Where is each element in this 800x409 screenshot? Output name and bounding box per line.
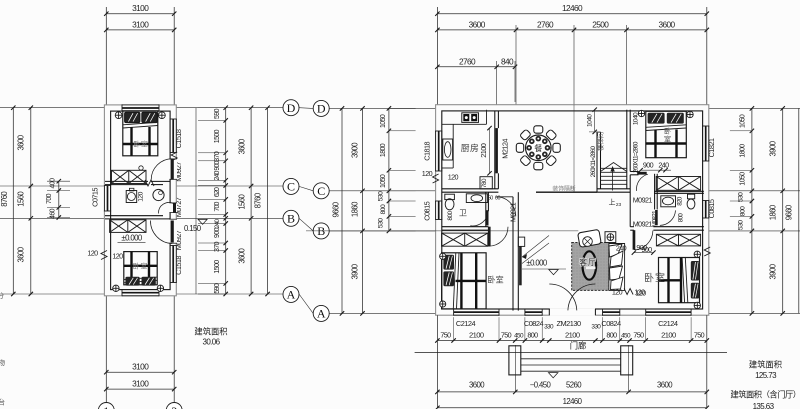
svg-text:900: 900 <box>214 160 221 170</box>
stairwell walls <box>596 132 598 192</box>
svg-text:餐: 餐 <box>534 144 542 153</box>
svg-text:C: C <box>287 180 295 194</box>
svg-text:建筑面积: 建筑面积 <box>749 360 782 370</box>
hall: tv cabinet and level <box>518 237 524 246</box>
left plan: 0.150 level mark <box>198 219 207 224</box>
svg-text:125.73: 125.73 <box>755 371 777 380</box>
svg-text:1860: 1860 <box>768 204 777 220</box>
svg-text:3600: 3600 <box>17 134 26 150</box>
svg-text:C0824: C0824 <box>524 319 544 328</box>
svg-text:260X11=2860: 260X11=2860 <box>590 145 597 177</box>
svg-text:120: 120 <box>448 173 459 182</box>
svg-text:C1518: C1518 <box>174 256 183 275</box>
svg-text:2100: 2100 <box>469 331 484 340</box>
svg-text:460: 460 <box>50 208 57 219</box>
svg-text:50: 50 <box>488 196 494 202</box>
left plan: 400/700/460 sub dims <box>58 181 60 217</box>
svg-text:装饰隔断: 装饰隔断 <box>552 185 575 193</box>
left bathroom fixtures <box>445 194 455 199</box>
svg-text:3900: 3900 <box>350 263 359 279</box>
svg-text:590: 590 <box>214 283 221 294</box>
svg-text:卫: 卫 <box>459 209 467 218</box>
svg-text:1050: 1050 <box>740 114 747 128</box>
svg-text:2100: 2100 <box>565 331 580 340</box>
dining south wall <box>442 188 499 190</box>
svg-text:800: 800 <box>677 213 684 223</box>
svg-text:ZM2130: ZM2130 <box>556 319 581 328</box>
svg-text:0.150: 0.150 <box>184 224 202 233</box>
svg-text:240: 240 <box>214 170 221 180</box>
dining table <box>553 143 560 152</box>
svg-text:A: A <box>287 288 296 302</box>
svg-text:5260: 5260 <box>566 380 582 389</box>
svg-text:C2124: C2124 <box>658 319 678 328</box>
svg-text:750: 750 <box>694 331 705 340</box>
kitchen sink <box>443 139 453 160</box>
svg-text:2100: 2100 <box>661 331 676 340</box>
svg-text:750: 750 <box>440 331 451 340</box>
bottom bedroom bed <box>124 252 157 285</box>
top right wardrobe <box>656 177 700 191</box>
svg-text:室: 室 <box>664 135 671 144</box>
svg-text:3600: 3600 <box>237 138 246 154</box>
svg-text:卧室: 卧室 <box>133 140 149 149</box>
right plan: bottom dims <box>437 340 706 342</box>
right bathroom walls <box>654 174 656 210</box>
left bathroom east wall <box>485 192 487 227</box>
svg-text:M0821: M0821 <box>652 210 659 227</box>
svg-text:400: 400 <box>50 178 57 189</box>
top right bedroom door <box>637 174 648 191</box>
svg-text:900: 900 <box>214 227 221 238</box>
svg-text:D: D <box>287 101 296 115</box>
bottom right bedroom bed <box>659 258 700 303</box>
B row wall left segment <box>442 226 489 228</box>
svg-text:800: 800 <box>527 331 538 340</box>
svg-text:2100: 2100 <box>479 143 488 158</box>
svg-text:M0921: M0921 <box>509 202 518 222</box>
left plan: top extension lines and 3100 dims <box>105 7 107 105</box>
right plan axis bubbles and lines <box>329 107 435 109</box>
door M0727 bathroom <box>173 203 176 213</box>
wall break symbols <box>101 251 107 260</box>
svg-text:800: 800 <box>447 210 454 220</box>
svg-text:120: 120 <box>634 288 645 297</box>
svg-text:M0921: M0921 <box>633 219 653 228</box>
svg-text:750: 750 <box>633 331 644 340</box>
left plan: right-side dim lines <box>195 108 197 294</box>
svg-text:3600: 3600 <box>658 19 675 29</box>
svg-text:C0815: C0815 <box>707 199 716 218</box>
svg-text:3100: 3100 <box>132 3 149 13</box>
svg-text:530: 530 <box>378 191 385 201</box>
svg-text:700: 700 <box>46 193 53 204</box>
svg-text:±0.000: ±0.000 <box>121 234 142 243</box>
exterior windows <box>435 131 437 171</box>
svg-text:450: 450 <box>514 333 524 340</box>
svg-text:1500: 1500 <box>214 129 221 143</box>
right bathroom door <box>655 210 658 225</box>
svg-text:23: 23 <box>616 202 622 208</box>
svg-text:3100: 3100 <box>132 379 149 389</box>
svg-text:1050: 1050 <box>380 174 387 188</box>
svg-text:上: 上 <box>609 198 616 207</box>
svg-text:门廊: 门廊 <box>570 341 587 351</box>
left plan: axis lines to bubbles D C B A <box>177 107 284 109</box>
porch steps and columns <box>521 358 621 360</box>
svg-text:1800: 1800 <box>380 143 387 157</box>
lamps bottom <box>113 285 119 291</box>
svg-text:30.06: 30.06 <box>202 338 220 347</box>
svg-text:台: 台 <box>0 398 5 407</box>
entry opening jambs <box>548 309 550 315</box>
svg-text:60: 60 <box>495 196 501 202</box>
svg-text:900: 900 <box>643 161 654 170</box>
svg-text:780: 780 <box>481 178 488 188</box>
svg-text:C0715: C0715 <box>91 188 100 207</box>
door M0927 bottom bedroom <box>171 221 174 243</box>
svg-text:750: 750 <box>501 331 512 340</box>
svg-text:240: 240 <box>214 219 221 229</box>
svg-text:厨房: 厨房 <box>461 142 480 153</box>
svg-text:800: 800 <box>740 206 747 216</box>
svg-text:8760: 8760 <box>0 191 9 207</box>
svg-text:530: 530 <box>737 220 744 230</box>
svg-text:M0921: M0921 <box>633 195 653 204</box>
right building: exterior walls <box>436 105 709 316</box>
svg-text:3600: 3600 <box>469 380 485 389</box>
svg-text:建筑面积: 建筑面积 <box>194 327 227 337</box>
svg-text:C: C <box>317 184 325 198</box>
svg-text:建筑面积（含门厅）: 建筑面积（含门厅） <box>730 390 800 400</box>
B row wall right segment <box>630 226 634 228</box>
top right bedroom bed <box>646 111 687 157</box>
svg-text:2760: 2760 <box>537 19 554 29</box>
svg-text:8760: 8760 <box>254 192 263 208</box>
bottom left bedroom wardrobe <box>442 233 488 246</box>
svg-text:370: 370 <box>214 151 221 162</box>
door M0927 top bedroom <box>171 159 174 180</box>
left building: windows <box>122 104 159 106</box>
svg-text:240: 240 <box>616 243 627 252</box>
entry double door arcs ZM2130 <box>549 284 577 310</box>
porch canopy line <box>415 352 727 354</box>
bathroom: washing machine, 120, basin <box>126 191 137 203</box>
svg-text:卧室: 卧室 <box>644 272 666 285</box>
svg-text:C2124: C2124 <box>456 319 476 328</box>
svg-text:260X11=2860: 260X11=2860 <box>633 141 640 173</box>
svg-text:2500: 2500 <box>592 19 609 29</box>
bottom right bedroom wardrobe <box>656 234 700 246</box>
svg-text:3600: 3600 <box>17 246 26 262</box>
bottom left bedroom bed <box>442 253 487 309</box>
entry opening white-out <box>550 308 595 316</box>
svg-text:800: 800 <box>606 331 617 340</box>
svg-text:3100: 3100 <box>132 19 149 29</box>
svg-text:物: 物 <box>0 358 5 367</box>
svg-text:1860: 1860 <box>350 201 359 217</box>
left building: top bedroom bed <box>123 111 158 156</box>
door opening white-outs on right wall <box>169 159 177 179</box>
top bedroom wardrobe <box>112 170 147 183</box>
svg-text:820: 820 <box>676 196 683 206</box>
top bedroom door wall <box>630 171 638 173</box>
svg-text:450: 450 <box>621 333 631 340</box>
svg-text:120: 120 <box>612 288 623 297</box>
svg-text:3900: 3900 <box>768 140 777 156</box>
svg-text:3600: 3600 <box>237 247 246 263</box>
svg-text:分: 分 <box>0 291 4 300</box>
svg-text:9660: 9660 <box>785 204 794 220</box>
right plan: left dim chains 9660 / 3900-1860-3900 / subs <box>341 108 343 313</box>
svg-text:1: 1 <box>103 404 109 409</box>
lamp table <box>605 232 616 243</box>
svg-text:370: 370 <box>214 241 221 252</box>
svg-text:A: A <box>317 307 326 321</box>
svg-text:3900: 3900 <box>350 142 359 158</box>
left bathroom door <box>486 210 489 225</box>
door to bottom-left bedroom <box>488 227 491 247</box>
coffee table oval <box>583 251 597 279</box>
svg-text:±0.000: ±0.000 <box>526 258 547 267</box>
svg-text:12460: 12460 <box>562 3 583 13</box>
svg-text:1050: 1050 <box>380 114 387 128</box>
sofa right of rug <box>609 244 625 291</box>
hall west wall column <box>512 197 514 311</box>
svg-text:530: 530 <box>378 218 385 228</box>
interior grid line x574 <box>573 105 575 193</box>
svg-text:1560: 1560 <box>17 191 26 207</box>
svg-text:3100: 3100 <box>132 362 149 372</box>
kitchen counters and stove <box>442 123 487 125</box>
corridor door (hall to dining) M0921 <box>496 197 516 216</box>
svg-text:1800: 1800 <box>740 144 747 158</box>
svg-text:C0815: C0815 <box>422 201 431 220</box>
svg-text:M2124: M2124 <box>501 139 510 159</box>
svg-text:1050: 1050 <box>740 172 747 186</box>
svg-text:B: B <box>287 212 295 226</box>
svg-text:C0824: C0824 <box>601 319 621 328</box>
stairwell annotations <box>594 110 596 132</box>
svg-text:700: 700 <box>214 201 221 211</box>
svg-text:840: 840 <box>501 56 514 66</box>
bottom bedroom wardrobe <box>110 220 146 233</box>
svg-text:3600: 3600 <box>469 19 486 29</box>
svg-text:120: 120 <box>422 169 433 178</box>
svg-text:135.63: 135.63 <box>753 402 775 409</box>
svg-text:C1821: C1821 <box>707 138 716 157</box>
armchair above rug <box>578 229 602 247</box>
svg-text:900: 900 <box>641 245 652 254</box>
svg-text:卧室: 卧室 <box>133 262 149 271</box>
svg-text:120: 120 <box>112 252 123 261</box>
svg-text:12460: 12460 <box>563 397 583 406</box>
svg-text:C1518: C1518 <box>174 129 183 148</box>
kitchen right wall with M2124 opening <box>494 111 496 189</box>
svg-text:330: 330 <box>544 324 554 331</box>
svg-text:−0.450: −0.450 <box>530 380 552 389</box>
svg-text:卧室: 卧室 <box>487 275 503 285</box>
svg-text:卧: 卧 <box>664 128 671 136</box>
left plan: left dim lines 8760 / 3600-1560-3600 <box>12 108 14 294</box>
svg-text:客厅: 客厅 <box>579 257 597 267</box>
svg-text:3900: 3900 <box>768 263 777 279</box>
svg-text:120: 120 <box>138 191 145 201</box>
svg-text:1500: 1500 <box>214 260 221 274</box>
B axis thin line across hall <box>306 230 578 232</box>
svg-text:1560: 1560 <box>237 193 246 209</box>
svg-text:9660: 9660 <box>332 201 341 217</box>
partition 装饰隔断 <box>536 191 597 193</box>
left building: bathroom walls <box>105 180 148 182</box>
svg-text:330: 330 <box>591 324 601 331</box>
door to bottom-right bedroom <box>633 230 636 250</box>
svg-text:2: 2 <box>171 404 177 409</box>
lamps <box>115 112 122 119</box>
svg-text:C1818: C1818 <box>422 142 431 161</box>
svg-text:800: 800 <box>380 204 387 214</box>
right bathroom fixtures <box>661 196 676 207</box>
svg-text:620: 620 <box>214 187 221 197</box>
svg-text:D: D <box>317 102 326 116</box>
fridge <box>480 177 492 189</box>
svg-text:B: B <box>317 224 325 238</box>
svg-text:1040: 1040 <box>587 114 594 127</box>
left building: exterior walls <box>104 105 176 296</box>
svg-text:3600: 3600 <box>657 380 673 389</box>
right plan: top dims 12460 / 3600-2760-2500-3600 / 2760-840 <box>436 7 438 105</box>
stairs <box>601 167 627 169</box>
left plan: bottom extension lines, 3100 dims, grid bubbles 1,2 <box>105 296 107 403</box>
level -0.450 <box>548 373 558 378</box>
left plan: row lines extending left <box>0 107 104 109</box>
svg-text:2760: 2760 <box>459 56 476 66</box>
svg-text:530: 530 <box>737 192 744 202</box>
svg-text:120: 120 <box>87 249 98 258</box>
svg-text:590: 590 <box>214 108 221 119</box>
right plan: right dim chains <box>751 108 753 313</box>
